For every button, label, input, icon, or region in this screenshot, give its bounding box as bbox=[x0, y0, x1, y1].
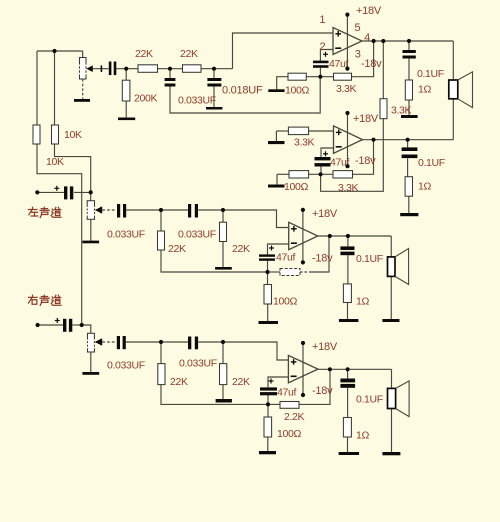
svg-text:22K: 22K bbox=[232, 376, 250, 388]
svg-text:1Ω: 1Ω bbox=[418, 180, 431, 192]
svg-text:+18V: +18V bbox=[353, 113, 379, 125]
svg-text:200K: 200K bbox=[134, 93, 157, 105]
svg-text:-18v: -18v bbox=[355, 155, 376, 167]
svg-text:3: 3 bbox=[355, 48, 361, 60]
svg-text:0.033UF: 0.033UF bbox=[179, 358, 217, 370]
svg-text:22K: 22K bbox=[232, 243, 250, 255]
svg-text:0.1UF: 0.1UF bbox=[356, 394, 383, 406]
svg-text:0.033UF: 0.033UF bbox=[178, 228, 216, 240]
svg-text:3.3K: 3.3K bbox=[338, 182, 359, 194]
svg-text:100Ω: 100Ω bbox=[285, 84, 309, 96]
svg-text:0.1UF: 0.1UF bbox=[418, 157, 445, 169]
svg-text:22K: 22K bbox=[170, 376, 188, 388]
svg-text:1Ω: 1Ω bbox=[356, 429, 369, 441]
svg-text:2.2K: 2.2K bbox=[284, 411, 305, 423]
svg-text:3.3K: 3.3K bbox=[391, 105, 412, 117]
svg-text:2: 2 bbox=[319, 41, 325, 53]
svg-text:+18V: +18V bbox=[312, 341, 338, 353]
svg-text:0.1UF: 0.1UF bbox=[417, 68, 444, 80]
svg-text:4: 4 bbox=[364, 32, 370, 44]
svg-text:10K: 10K bbox=[46, 156, 64, 168]
svg-text:0.018UF: 0.018UF bbox=[222, 85, 263, 97]
svg-text:3.3K: 3.3K bbox=[336, 83, 357, 95]
svg-text:+18V: +18V bbox=[356, 5, 382, 17]
svg-text:47uf: 47uf bbox=[276, 252, 295, 264]
svg-text:100Ω: 100Ω bbox=[277, 428, 301, 440]
svg-text:22K: 22K bbox=[168, 243, 186, 255]
svg-text:10K: 10K bbox=[64, 129, 82, 141]
svg-text:3.3K: 3.3K bbox=[294, 137, 315, 149]
svg-text:22K: 22K bbox=[180, 48, 198, 60]
svg-text:0.1UF: 0.1UF bbox=[356, 253, 383, 265]
svg-text:0.033UF: 0.033UF bbox=[107, 229, 145, 241]
svg-text:22K: 22K bbox=[135, 48, 153, 60]
svg-text:1: 1 bbox=[319, 14, 325, 26]
svg-text:-18v: -18v bbox=[312, 253, 333, 265]
svg-text:100Ω: 100Ω bbox=[273, 295, 297, 307]
svg-text:+18V: +18V bbox=[312, 208, 338, 220]
svg-text:47uf: 47uf bbox=[277, 386, 296, 398]
svg-text:0.033UF: 0.033UF bbox=[178, 95, 216, 107]
svg-text:100Ω: 100Ω bbox=[284, 181, 308, 193]
svg-text:5: 5 bbox=[355, 22, 361, 34]
svg-text:1Ω: 1Ω bbox=[418, 83, 431, 95]
svg-text:0.033UF: 0.033UF bbox=[107, 360, 145, 372]
svg-text:-18v: -18v bbox=[312, 385, 333, 397]
svg-text:-18v: -18v bbox=[361, 58, 382, 70]
svg-text:1Ω: 1Ω bbox=[356, 296, 369, 308]
